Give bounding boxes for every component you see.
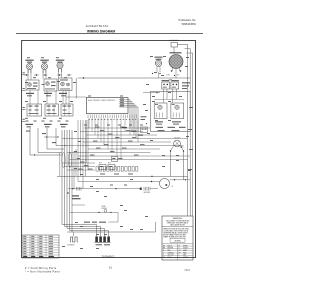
relay K4	[108, 165, 115, 170]
junction	[57, 136, 59, 138]
svg-text:Publication No.: Publication No.	[179, 18, 197, 22]
wire	[88, 148, 160, 150]
wire	[154, 98, 184, 100]
relay K1	[162, 82, 170, 89]
wire	[47, 148, 64, 150]
junction	[174, 75, 176, 77]
wire	[72, 204, 85, 206]
wire	[62, 224, 97, 226]
svg-text:RLY: RLY	[99, 163, 102, 165]
junction	[151, 175, 153, 177]
element hatch	[144, 187, 150, 191]
surface unit SU2	[40, 60, 49, 74]
wire	[163, 89, 165, 103]
wire	[78, 77, 190, 79]
svg-text:GY: GY	[179, 250, 181, 252]
junction	[67, 192, 69, 194]
wire	[179, 67, 181, 71]
latch switch LS2	[171, 103, 184, 119]
wire	[62, 162, 95, 164]
wire loop P1	[62, 153, 65, 168]
svg-text:BROWN: BROWN	[168, 248, 174, 250]
right wire labels	[188, 107, 193, 170]
terminal	[180, 70, 182, 72]
wire	[80, 130, 143, 132]
wire	[171, 67, 173, 71]
wire	[82, 141, 171, 143]
labels	[99, 163, 111, 165]
terminal	[171, 70, 173, 72]
relay K2	[171, 82, 179, 89]
wire	[180, 146, 184, 148]
svg-text:RED: RED	[168, 250, 171, 252]
terminal	[159, 73, 161, 75]
junction	[181, 146, 182, 147]
wire	[170, 179, 191, 181]
junction	[185, 179, 187, 181]
wire	[78, 155, 190, 157]
svg-text:GROUND: GROUND	[144, 192, 152, 194]
terminal	[110, 212, 112, 214]
sensor probe	[104, 209, 107, 212]
switch row A labels	[26, 93, 67, 97]
junction	[156, 92, 158, 94]
terminal block	[140, 188, 142, 190]
wire	[180, 145, 183, 151]
wire	[189, 49, 191, 216]
wire	[109, 221, 119, 223]
svg-text:# = Field Wiring Parts: # = Field Wiring Parts	[25, 266, 57, 270]
wire	[70, 158, 188, 160]
svg-text:5995434581: 5995434581	[182, 22, 197, 26]
svg-text:YELLOW: YELLOW	[168, 255, 175, 257]
fan motor M1	[155, 60, 161, 66]
wire labels	[26, 131, 56, 144]
oven lamp	[169, 55, 183, 69]
wire	[108, 231, 110, 237]
terminal	[170, 150, 172, 152]
wire	[150, 188, 158, 190]
svg-text:VIOLET: VIOLET	[183, 248, 188, 250]
svg-text:BU: BU	[163, 257, 165, 259]
surface unit SU3	[56, 60, 65, 72]
annotation specks	[25, 56, 191, 249]
surface unit lead wires	[28, 69, 61, 81]
svg-text:PK: PK	[179, 252, 181, 254]
junction	[46, 136, 48, 138]
wire	[65, 226, 101, 228]
switch label	[170, 40, 179, 41]
bundle wire labels	[84, 222, 106, 223]
terminal	[183, 150, 185, 152]
svg-text:LEGEND: LEGEND	[174, 240, 182, 242]
bus wire	[61, 130, 63, 225]
wire	[30, 154, 62, 156]
wire	[173, 47, 175, 54]
wire	[117, 212, 119, 222]
connector strip P8	[96, 167, 138, 175]
wire	[166, 89, 168, 99]
wire	[67, 228, 105, 230]
svg-text:* = Non-Illustrated Parts: * = Non-Illustrated Parts	[25, 270, 61, 274]
wire	[192, 53, 194, 216]
lamp terminal labels	[166, 75, 180, 77]
electronic oven control box	[86, 98, 128, 114]
left cluster interconnect wires	[30, 91, 69, 105]
junction	[115, 188, 117, 190]
wire	[65, 144, 184, 146]
relay K2 label	[171, 80, 179, 81]
wire	[44, 136, 58, 138]
wire	[185, 48, 191, 50]
wire	[187, 52, 193, 54]
wire	[37, 128, 39, 153]
labels	[158, 130, 180, 131]
junction	[34, 154, 36, 156]
surface switch S3	[59, 78, 73, 91]
svg-text:318546502: 318546502	[102, 254, 116, 258]
svg-text:RLY: RLY	[108, 163, 111, 165]
junction	[83, 77, 85, 79]
relay K5	[112, 157, 118, 162]
wire	[46, 128, 48, 149]
svg-text:WARNING: WARNING	[173, 217, 183, 220]
side labels	[141, 116, 148, 124]
wire	[66, 96, 86, 98]
header rule	[16, 33, 203, 35]
legend box	[162, 216, 193, 260]
bake element	[71, 237, 78, 243]
wire	[75, 78, 77, 98]
svg-text:BLUE: BLUE	[168, 257, 172, 259]
supply terminal block	[95, 237, 111, 246]
wire	[171, 145, 174, 151]
terminal	[152, 73, 154, 75]
wire	[70, 211, 118, 213]
oven lamp B	[160, 179, 170, 189]
wire	[38, 152, 62, 154]
wire	[183, 152, 185, 180]
svg-text:0803: 0803	[185, 269, 191, 272]
labels	[102, 206, 107, 210]
wire color chart	[22, 235, 59, 258]
fan band labels	[122, 127, 143, 136]
svg-text:T: T	[179, 255, 180, 257]
wire	[172, 89, 174, 103]
wire	[55, 128, 57, 146]
door switch DS2	[141, 127, 148, 133]
junction	[174, 179, 176, 181]
line entry stubs	[22, 72, 26, 121]
surface switch S1	[26, 80, 39, 90]
svg-text:V: V	[179, 248, 180, 250]
surface switch S5	[45, 104, 59, 116]
wire	[100, 227, 102, 237]
wire	[68, 188, 140, 190]
wire	[143, 92, 160, 94]
svg-text:GREEN: GREEN	[183, 257, 188, 259]
wire	[78, 181, 160, 183]
wire	[176, 89, 178, 99]
publication number text	[179, 18, 197, 26]
svg-text:WIRING SHOWN WITH DOOR OPEN: WIRING SHOWN WITH DOOR OPEN	[163, 228, 189, 230]
wire	[67, 231, 156, 233]
surface switch S6	[61, 104, 73, 116]
wire	[155, 222, 157, 232]
svg-text:E30EW75ESS1: E30EW75ESS1	[86, 24, 109, 28]
wire	[86, 134, 157, 136]
svg-text:61: 61	[109, 265, 112, 269]
wire	[73, 232, 75, 237]
wire	[187, 45, 189, 216]
wire	[67, 169, 95, 171]
wire	[67, 151, 151, 153]
svg-text:DISCONNECT POWER BEFORE: DISCONNECT POWER BEFORE	[166, 220, 189, 222]
pin number labels	[89, 118, 137, 121]
wire	[57, 175, 188, 177]
svg-text:ELECTRONIC OVEN CONTROL: ELECTRONIC OVEN CONTROL	[88, 100, 115, 102]
wire	[65, 165, 96, 167]
relay K3	[99, 165, 106, 170]
wire	[175, 69, 177, 79]
wire	[104, 229, 106, 237]
wire	[29, 128, 31, 155]
bus wire	[71, 130, 73, 232]
svg-text:BK: BK	[163, 245, 165, 247]
wire	[158, 72, 160, 78]
svg-text:WIRING DIAGRAM: WIRING DIAGRAM	[87, 30, 115, 34]
latch assembly box	[151, 92, 191, 132]
svg-text:TEMP: TEMP	[102, 206, 106, 208]
wire	[96, 225, 98, 237]
wire	[159, 66, 161, 72]
switch row B labels	[26, 124, 68, 128]
wire	[56, 145, 66, 147]
svg-text:R: R	[163, 250, 164, 252]
bus wire	[64, 130, 66, 227]
relay labels	[182, 82, 190, 89]
control connector pins	[88, 115, 136, 119]
riser wires 2	[60, 120, 87, 189]
svg-text:BR: BR	[163, 248, 165, 250]
pin drop wires	[89, 118, 138, 160]
surface switch S2	[44, 79, 57, 91]
svg-text:PL: PL	[172, 186, 174, 188]
latch labels	[155, 121, 186, 128]
lamp filament	[165, 184, 167, 186]
svg-text:PROBE: PROBE	[102, 208, 107, 210]
fan label	[155, 57, 163, 60]
wire	[62, 137, 188, 139]
switch row B terminals	[25, 120, 69, 121]
wire	[178, 44, 188, 46]
junction	[151, 181, 153, 183]
junction	[72, 188, 74, 190]
door switch	[171, 43, 178, 48]
svg-text:WHITE: WHITE	[183, 245, 188, 247]
bus wire	[69, 130, 71, 231]
svg-text:Y: Y	[163, 255, 164, 257]
bus wire	[66, 130, 68, 229]
wire loop P2	[68, 153, 71, 168]
lamp label	[170, 52, 182, 53]
control output elbow wires	[119, 98, 138, 142]
latch motor M2	[174, 140, 181, 147]
wire	[156, 66, 158, 72]
riser wires	[78, 120, 88, 189]
svg-text:PINK: PINK	[183, 252, 186, 254]
surface unit SU1	[25, 60, 34, 74]
fuse hatch	[77, 187, 82, 191]
labels	[72, 195, 81, 199]
relay K1 label	[162, 80, 170, 81]
svg-text:MOTOR: MOTOR	[174, 138, 180, 140]
wire	[70, 230, 109, 232]
surface unit terminals	[24, 74, 71, 76]
wire	[170, 152, 172, 177]
surface switch S4	[27, 104, 42, 116]
diagram border frame	[22, 40, 196, 258]
latch switch LS1	[154, 103, 167, 119]
terminal	[98, 212, 100, 214]
svg-text:ELEMENT: ELEMENT	[68, 245, 75, 247]
wire	[84, 127, 150, 129]
